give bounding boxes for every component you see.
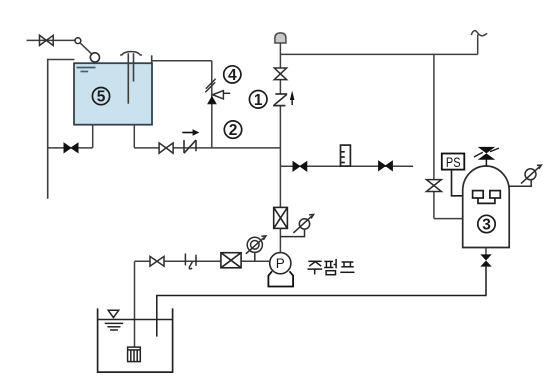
wire: flow test branch xyxy=(280,165,413,167)
wire: PS to chamber sensor xyxy=(452,170,473,196)
svg-text:PS: PS xyxy=(446,155,461,170)
overflow standpipe vertical wire xyxy=(47,59,49,199)
test branch valve A (filled) xyxy=(293,161,307,171)
svg-text:P: P xyxy=(276,256,285,271)
node 4 (circled label) xyxy=(224,66,241,84)
gate valve on riser (open bowtie vertical) xyxy=(274,68,286,80)
riser pipe segments xyxy=(279,43,281,253)
flexible joint on riser (box with X) xyxy=(274,207,288,228)
discharge pressure gauge xyxy=(280,215,313,237)
svg-text:2: 2 xyxy=(229,122,238,139)
pump base pedestal xyxy=(268,271,293,286)
wire: top distribution line xyxy=(280,53,477,55)
sight glass / flow meter xyxy=(341,145,351,166)
test branch valve B (filled) xyxy=(379,161,393,171)
strainer (box with X) xyxy=(221,253,241,268)
wire: drain horizontal to standpipe xyxy=(48,147,93,149)
wire: fill line top-left xyxy=(27,39,76,41)
chamber drain valve (filled) xyxy=(480,248,491,267)
wire: branch down to pressure chamber xyxy=(434,54,463,218)
node 1 (circled label) xyxy=(249,91,267,109)
float valve pilot circle xyxy=(75,38,81,44)
water level marks in tank xyxy=(77,68,96,72)
flexible check valve symbol xyxy=(184,140,196,153)
wire: test line vertical xyxy=(211,61,213,148)
vent pipe with cap on tank xyxy=(120,52,142,104)
check valve 1 (Z symbol) xyxy=(273,94,287,106)
float ball xyxy=(90,53,99,62)
svg-text:4: 4 xyxy=(228,67,237,84)
gate valve on suction (open bowtie) xyxy=(159,143,173,153)
svg-text:5: 5 xyxy=(97,89,106,106)
flow arrow xyxy=(182,129,199,136)
pressure chamber 3 body xyxy=(463,166,510,248)
valve: fill-line gate valve (open bowtie) xyxy=(40,35,54,45)
drain valve (filled) xyxy=(64,143,78,153)
float arm wire xyxy=(80,43,92,55)
wire: tank right outlet vertical xyxy=(133,125,135,148)
wire: suction line to riser xyxy=(134,147,280,149)
wire: pump suction horizontal xyxy=(135,260,270,262)
wire: tank top to test line xyxy=(152,60,212,62)
pump P (main pump) xyxy=(270,253,291,274)
pressure switch sensors inside chamber xyxy=(473,191,501,204)
label: main pump (주펌프 drawn strokes) xyxy=(308,259,355,275)
check arrow (filled triangle up) xyxy=(208,96,217,104)
suction compound gauge (double circle) xyxy=(246,236,266,261)
riser cap (grey dome) xyxy=(275,33,286,43)
tank outlet stub wire xyxy=(151,55,153,63)
wire: tank left drain vertical xyxy=(92,125,94,148)
reservoir (water source tank) xyxy=(98,308,173,372)
wire: chamber drain to reservoir xyxy=(157,267,486,337)
chamber pressure gauge xyxy=(509,165,541,186)
overflow standpipe top wire xyxy=(48,59,75,61)
gate valve on chamber line (open bowtie vertical) xyxy=(426,180,441,192)
relief valve on chamber top (filled) xyxy=(474,147,499,167)
suction gate valve (open bowtie) xyxy=(150,256,164,266)
svg-text:3: 3 xyxy=(482,217,491,234)
flow arrow up beside check valve xyxy=(290,91,295,105)
drain funnel (open triangle, node 4 assembly) xyxy=(213,91,231,99)
reservoir water line xyxy=(98,319,173,321)
node 5 (circled label) xyxy=(92,88,109,106)
water level symbol (triangle) xyxy=(105,310,124,330)
wire: continuation riser with break squiggle xyxy=(471,31,487,55)
union / flexible coupling xyxy=(185,254,196,269)
PS box (pressure switch label) xyxy=(442,154,465,170)
tank 5 (water supply tank) xyxy=(74,63,152,124)
node 2 (circled label) xyxy=(224,121,241,139)
foot valve / strainer xyxy=(128,347,141,362)
wire: suction drop pipe xyxy=(134,261,136,347)
svg-text:1: 1 xyxy=(254,92,263,109)
break slashes on test line xyxy=(205,79,215,93)
node 3 (circled label) xyxy=(478,215,495,233)
